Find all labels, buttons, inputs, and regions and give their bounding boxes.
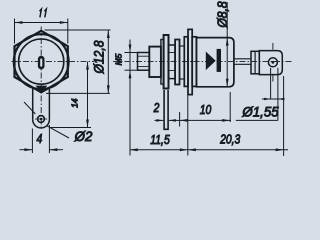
svg-text:4: 4 — [37, 132, 43, 146]
body circle (front) — [19, 39, 64, 84]
terminal hole Ø1.55 — [268, 58, 277, 67]
bushing (side) — [169, 45, 176, 79]
neck between discs — [180, 45, 185, 47]
flange extension lines (U shape) — [164, 90, 168, 129]
washer behind flange — [161, 40, 164, 85]
diode symbol cathode bar — [217, 49, 221, 72]
dimension Ø1.55 — [270, 68, 272, 99]
svg-text:Ø12,8: Ø12,8 — [91, 40, 107, 75]
hole centerline — [272, 43, 274, 50]
seating plane extension line — [187, 96, 189, 156]
terminal crimp rib — [254, 51, 256, 74]
svg-text:20,3: 20,3 — [219, 133, 241, 147]
case body Ø8.8 — [196, 38, 234, 87]
center slot — [38, 56, 45, 70]
dimension 2 — [155, 119, 164, 121]
hole horizontal centerline tick — [35, 118, 47, 120]
flange circle Ø12.8 (front) — [14, 34, 69, 89]
wire: leader upper segment of hole Ø2 — [24, 102, 35, 114]
lug (mounting tab) — [32, 87, 34, 120]
svg-text:2: 2 — [153, 101, 160, 115]
centerline: front view horizontal axis — [12, 61, 95, 63]
dimension 10 — [180, 119, 231, 121]
svg-text:Ø8,8: Ø8,8 — [214, 1, 230, 29]
centerline: side view axis — [113, 61, 292, 63]
svg-text:M5: M5 — [114, 53, 124, 65]
svg-text:Ø2: Ø2 — [74, 129, 93, 144]
hex bottom vertex wedge — [36, 86, 48, 93]
hex nut (side) — [149, 47, 161, 77]
leader and label Ø2 — [47, 126, 69, 138]
centerline: front view vertical axis — [40, 27, 42, 129]
case rim disc right — [192, 37, 196, 87]
flange disc (side), 2 mm — [164, 35, 169, 89]
bottom dimension line 11.5 / 20.3 — [130, 149, 288, 151]
terminal lug — [259, 51, 282, 75]
svg-text:10: 10 — [200, 103, 212, 117]
lead stem — [234, 58, 251, 60]
case rim disc (tallest) — [188, 29, 192, 94]
seating disc — [175, 40, 179, 85]
svg-text:11,5: 11,5 — [150, 133, 170, 147]
dimension 4 — [31, 129, 33, 154]
weld disc — [184, 37, 188, 87]
hex nut outline (front) — [15, 31, 68, 93]
hole Ø2 in lug — [38, 116, 45, 123]
svg-text:14: 14 — [70, 98, 80, 108]
dimension Ø8.8 — [226, 2, 228, 87]
threaded stud M5 — [138, 53, 150, 71]
svg-text:Ø1,55: Ø1,55 — [241, 104, 279, 119]
terminal crimp — [251, 51, 259, 74]
dimension 14 — [50, 127, 92, 129]
label shelf — [236, 119, 278, 121]
diode symbol anode triangle — [206, 52, 216, 71]
dimension Ø12.8 — [45, 29, 111, 31]
dimension 11 — [14, 19, 16, 44]
extension stub for dim 10 — [179, 112, 181, 127]
extension line below body for dim 10 — [229, 92, 231, 122]
20.3 right extension line — [283, 76, 285, 156]
dimension M5 line (also 11,5 reference) — [129, 40, 131, 156]
